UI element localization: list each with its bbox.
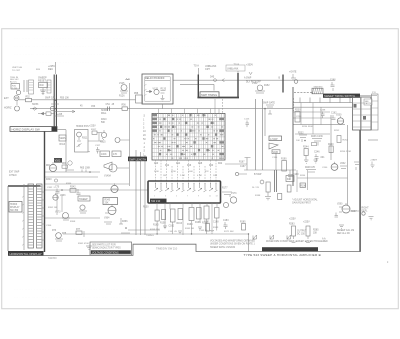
cluster: R240 — [328, 144, 334, 153]
svg-text:R248 47K: R248 47K — [305, 167, 316, 169]
tube: sawtooth CF V186 — [269, 143, 280, 154]
tube V364 — [104, 205, 116, 220]
svg-text:V173: V173 — [55, 212, 61, 214]
svg-text:+350V: +350V — [246, 64, 253, 67]
svg-text:25K: 25K — [105, 203, 110, 205]
svg-text:TIMING: TIMING — [146, 235, 154, 237]
delay line verticals x=255.5,262.5 — [256, 99, 263, 170]
label bar: sweep length (dark strip left of grid bottom) — [128, 157, 147, 162]
svg-text:V186: V186 — [273, 152, 279, 154]
svg-text:HORIZONTAL DISPLAY: HORIZONTAL DISPLAY — [10, 252, 42, 256]
connector J1: ext horiz input — [4, 96, 20, 112]
svg-text:V262: V262 — [340, 163, 346, 165]
capacitor C125 mid — [244, 119, 250, 128]
svg-text:DISPLAY: DISPLAY — [10, 206, 20, 209]
svg-text:C167: C167 — [240, 166, 246, 168]
svg-text:VOLTAGES AND WAVEFORMS OBTAINE: VOLTAGES AND WAVEFORMS OBTAINED — [210, 240, 255, 243]
resistor R56 on bus y=108 — [122, 93, 143, 110]
wire: pot box out — [88, 141, 103, 152]
svg-text:R61: R61 — [46, 165, 51, 167]
svg-text:UNBLANK: UNBLANK — [227, 67, 239, 70]
svg-text:SWEEP TIMING SWITCH: SWEEP TIMING SWITCH — [324, 94, 355, 98]
svg-text:R20: R20 — [209, 165, 214, 167]
wire: left amp y=177 — [45, 176, 98, 178]
svg-text:HORIZ: HORIZ — [4, 107, 12, 110]
svg-text:11: 11 — [209, 196, 211, 198]
svg-text:R236 C236: R236 C236 — [311, 136, 323, 138]
svg-text:V161: V161 — [55, 160, 61, 163]
wire: right section y=112 — [293, 111, 330, 113]
svg-text:* ADJUST HORIZONTAL: * ADJUST HORIZONTAL — [292, 199, 318, 202]
cluster on y=108 wire: attenuator — [32, 104, 39, 110]
svg-text:VERT SIG: VERT SIG — [12, 67, 22, 69]
svg-text:SW 350: SW 350 — [10, 210, 19, 212]
cluster: delay pickoff cathode follower — [119, 78, 130, 97]
svg-text:TIME/DIV SW 210: TIME/DIV SW 210 — [156, 246, 178, 250]
svg-text:DELAY PICKOFF: DELAY PICKOFF — [145, 77, 165, 80]
potentiometer R315 — [100, 130, 107, 144]
wire stubs resistor row to sweep bus — [157, 218, 217, 234]
svg-text:100K: 100K — [188, 171, 193, 173]
svg-text:13: 13 — [216, 196, 218, 198]
label box: delayed sweep — [269, 136, 282, 141]
wire: right section y=124.5 — [293, 124, 345, 126]
cluster: left mid column texts — [101, 110, 108, 124]
tube V152: sweep gating — [252, 83, 270, 93]
left amp: cluster R77 — [76, 229, 84, 237]
wire: left amp y=190 — [45, 189, 148, 191]
wire: stub pickoff box to bus — [162, 104, 164, 109]
svg-text:.... ...... ....... ..... ....: .... ...... ....... ..... ........ .....… — [14, 36, 207, 40]
screen vertical x=284.5 — [282, 75, 284, 93]
resistor R52 on y=100 wire — [26, 97, 32, 102]
left amp: tube V173 cluster — [55, 212, 70, 221]
resistor R194 — [287, 185, 291, 192]
svg-text:R10: R10 — [154, 163, 159, 165]
svg-text:DL 170: DL 170 — [252, 187, 260, 189]
svg-text:AC DC: AC DC — [10, 81, 17, 84]
svg-text:R317: R317 — [91, 129, 97, 131]
svg-text:R352 1M: R352 1M — [48, 207, 57, 209]
svg-text:+225V: +225V — [303, 222, 310, 224]
wire: bus elbow to x=66 down to left amp — [57, 130, 66, 172]
thick section line y=186 left — [8, 185, 41, 187]
svg-text:V364: V364 — [104, 218, 110, 220]
svg-text:A SWP: A SWP — [244, 77, 252, 80]
svg-text:R185: R185 — [240, 222, 246, 224]
resistor R283 vertical column — [289, 219, 307, 243]
svg-text:R150: R150 — [143, 207, 149, 209]
svg-text:R167: R167 — [239, 162, 245, 164]
wire: left amp y=218 — [45, 217, 100, 219]
wire: verticals x=136,140.5,145 grid feed — [136, 150, 145, 235]
coupling dashed line to timing switch — [294, 92, 322, 94]
sawtooth waveform icons — [253, 235, 291, 240]
marks near right border — [354, 162, 359, 170]
wire: vertical stubs x=301,313,321 — [301, 103, 321, 134]
svg-text:R256 2.2M: R256 2.2M — [340, 151, 351, 153]
svg-text:R196: R196 — [300, 185, 306, 187]
svg-text:SWP CAL: SWP CAL — [45, 97, 56, 100]
wire: right section y=134 — [295, 133, 330, 135]
svg-text:R18: R18 — [198, 163, 203, 165]
box: norm/mag switch small — [286, 176, 294, 182]
cluster: left amp input pair — [46, 179, 66, 200]
resistor R190 vertical — [281, 158, 287, 171]
svg-text:TYPE 543 SWEEP & HORIZONTAL A: TYPE 543 SWEEP & HORIZONTAL AMPLIFIER ⊕ — [244, 253, 322, 257]
wire: vertical x=129.5 pickoff to lower stage — [129, 83, 131, 186]
svg-text:R65 100K: R65 100K — [80, 168, 91, 170]
label: ext sweep in — [9, 172, 20, 177]
wire stubs from grid top to bus — [159, 109, 220, 114]
svg-text:C356: C356 — [46, 225, 52, 227]
wire: stubs below timing bar — [300, 98, 350, 103]
U-bracket: sweep timing switch screen outline — [198, 73, 238, 98]
svg-text:5: 5 — [176, 196, 177, 198]
svg-text:R313: R313 — [60, 144, 66, 146]
svg-text:VERN: VERN — [60, 138, 67, 140]
cluster: R342 network — [70, 187, 81, 195]
svg-text:C238: C238 — [320, 110, 326, 112]
svg-text:15K: 15K — [313, 233, 318, 235]
svg-text:TO A: TO A — [194, 65, 200, 68]
svg-text:2.2M: 2.2M — [180, 175, 185, 177]
svg-text:R177: R177 — [222, 188, 228, 190]
wire: y=230 stub — [121, 230, 160, 233]
label bar: horizontal display switch SW350 (bottom left) — [8, 251, 44, 256]
svg-text:..... ....... ...... .... ....: ..... ....... ...... .... ........ .....… — [14, 52, 210, 56]
svg-text:C317: C317 — [95, 145, 101, 147]
svg-text:R181: R181 — [204, 222, 210, 224]
capacitor C238 — [320, 110, 326, 119]
label box: unblanking — [226, 65, 245, 71]
svg-text:OUTPUT: OUTPUT — [297, 231, 307, 233]
diamond junction on y=80 wire — [210, 77, 217, 82]
resistor R317 — [91, 129, 102, 154]
arrow marks on wire y=80 — [222, 72, 252, 82]
svg-text:PARTS: PARTS — [365, 102, 372, 105]
svg-text:SWP TIMING: SWP TIMING — [201, 93, 217, 97]
wire: long horizontal bus y=108.5 — [30, 108, 293, 110]
svg-text:C53: C53 — [91, 106, 96, 108]
left amp: sweep label box and tube — [78, 196, 90, 213]
svg-text:220K: 220K — [154, 171, 159, 173]
svg-text:+GATE: +GATE — [370, 159, 378, 162]
svg-text:R264: R264 — [300, 175, 306, 177]
svg-text:R22: R22 — [218, 163, 223, 165]
label bar: time/cm switch (dark) — [323, 94, 360, 98]
tube V250 with envelope — [336, 114, 344, 124]
svg-text:2.2M: 2.2M — [12, 88, 17, 90]
wire: left amp y=172 — [45, 171, 100, 173]
left amp: cluster V193 — [52, 230, 67, 241]
resistor R165 (below wafer) — [195, 208, 201, 225]
svg-text:SWEEP RATE 1 MS/CM: SWEEP RATE 1 MS/CM — [210, 246, 235, 249]
svg-text:R190: R190 — [281, 158, 287, 160]
vertical box component x=295 y=111 — [295, 109, 301, 122]
svg-text:SW350: SW350 — [48, 256, 57, 260]
svg-text:R297: R297 — [351, 211, 357, 213]
ground: left amp bottom — [86, 246, 92, 250]
cluster: right-mid extra 2 — [314, 152, 325, 162]
svg-text:R232: R232 — [298, 133, 304, 135]
cluster: inside delay pickoff box — [146, 88, 167, 101]
box U1: delay pickoff sub-circuit with title strip — [142, 74, 173, 104]
svg-text:R160: R160 — [153, 225, 159, 227]
svg-text:R14: R14 — [176, 163, 181, 165]
svg-text:V290: V290 — [337, 204, 343, 206]
wire stubs above bracket — [198, 67, 238, 75]
left amp: verticals to lower stage — [57, 195, 62, 215]
box: R58 on mag line — [46, 112, 51, 115]
wire: y=113.5 mag register line — [38, 112, 54, 115]
wire: bar to right edge y=95.5 — [360, 95, 377, 97]
svg-text:HORIZ DISPLAY SW: HORIZ DISPLAY SW — [12, 128, 40, 132]
svg-text:SW53: SW53 — [32, 104, 39, 106]
tube V250B lower — [331, 162, 347, 171]
svg-text:R50 10K: R50 10K — [60, 98, 69, 100]
svg-text:C70: C70 — [55, 187, 60, 189]
table row labels left — [143, 115, 146, 161]
mechanical coupling box — [312, 88, 323, 94]
switch logic table (timing chart grid) — [152, 114, 225, 161]
wire: y=116 stub — [54, 115, 64, 117]
svg-text:9: 9 — [198, 196, 199, 198]
svg-text:R77: R77 — [76, 229, 81, 231]
resistor R166 — [202, 206, 209, 225]
svg-text:...... ..... ........ ..... ..: ...... ..... ........ ..... ...... .....… — [14, 287, 210, 291]
resistor R158 (below wafer) — [160, 210, 166, 225]
wire: horizontal y=84 — [180, 84, 214, 90]
svg-text:CRT: CRT — [205, 68, 210, 71]
svg-text:R56: R56 — [122, 105, 127, 107]
svg-text:R126: R126 — [119, 96, 125, 98]
svg-text:R345: R345 — [105, 200, 111, 202]
resistor R198 small — [278, 194, 282, 200]
svg-text:R315: R315 — [100, 142, 106, 144]
wire: column x=215 to bar — [214, 99, 216, 114]
svg-text:SWP LENGTH: SWP LENGTH — [129, 157, 146, 161]
svg-text:R336: R336 — [66, 183, 72, 185]
svg-text:47K: 47K — [113, 153, 118, 156]
narrow box right edge — [372, 94, 379, 130]
svg-text:R165: R165 — [195, 222, 201, 224]
svg-text:NORM: NORM — [101, 110, 108, 112]
label box: horizontal display — [9, 202, 22, 213]
svg-text:DC 150: DC 150 — [297, 234, 306, 236]
resistor R254 — [337, 136, 349, 143]
svg-text:MAG: MAG — [101, 112, 106, 115]
cluster: top right corner texts — [370, 92, 378, 168]
svg-text:ATTEN: ATTEN — [9, 174, 17, 177]
svg-text:+225V: +225V — [289, 219, 296, 221]
svg-text:C168: C168 — [213, 221, 219, 223]
wire stubs below wafer box — [157, 203, 217, 235]
svg-text:C165 10: C165 10 — [199, 230, 208, 232]
svg-text:3: 3 — [165, 196, 166, 198]
svg-text:V173: V173 — [231, 193, 237, 195]
svg-text:R366: R366 — [122, 221, 128, 223]
svg-text:R234 330K: R234 330K — [302, 126, 313, 128]
wire: sweep output long run y=234 — [63, 234, 249, 252]
extra labels: resistor row — [146, 227, 234, 237]
ground symbols below resistor row — [163, 226, 214, 234]
svg-text:C246: C246 — [314, 152, 320, 154]
cluster: row y=220 #3 — [240, 222, 246, 231]
left amp: cluster R63/C63 — [62, 161, 74, 170]
label boxes: 100K / 47K — [100, 151, 121, 157]
capacitor C54 on bus y=108 — [106, 104, 115, 111]
svg-text:R40: R40 — [40, 85, 45, 87]
svg-text:REF ALL DC: REF ALL DC — [337, 232, 350, 235]
thick feed vertical x=293 — [292, 87, 294, 186]
svg-text:R285: R285 — [313, 230, 319, 232]
extra labels: right amp section — [296, 116, 351, 177]
svg-text:R12: R12 — [165, 165, 170, 167]
cluster: marks below V364 — [104, 218, 128, 229]
svg-text:C160: C160 — [330, 80, 336, 82]
svg-text:TO CRT: TO CRT — [12, 70, 21, 72]
svg-text:R310: R310 — [101, 119, 107, 121]
svg-text:R135: R135 — [161, 88, 167, 90]
svg-text:C125: C125 — [244, 119, 250, 121]
wire stubs: strips to section line — [42, 192, 45, 240]
svg-text:VOLTAGE CONDITIONS: VOLTAGE CONDITIONS — [92, 251, 119, 254]
svg-text:+GATE: +GATE — [289, 71, 297, 74]
svg-text:50K: 50K — [101, 122, 106, 124]
svg-text:HORIZ: HORIZ — [10, 204, 18, 206]
wire: right section y=102.5 — [293, 102, 352, 104]
svg-text:C332 .1: C332 .1 — [47, 187, 55, 189]
svg-text:GAIN R196 FIRST: GAIN R196 FIRST — [292, 202, 312, 205]
svg-text:R73: R73 — [52, 230, 57, 232]
junction dots on sweep bus — [156, 233, 249, 234]
dash coupling vertical x=293.5 — [293, 98, 295, 111]
svg-text:C162: C162 — [169, 225, 175, 227]
svg-text:C161 .05: C161 .05 — [168, 231, 178, 233]
cluster: sweep reset stage — [38, 77, 51, 96]
tube V140A sweep gen — [104, 162, 129, 178]
svg-text:A A: A A — [322, 238, 326, 241]
resistor R168 — [213, 208, 219, 224]
cluster: sweep gate components on bus — [263, 102, 275, 114]
svg-text:R63: R63 — [62, 163, 67, 165]
schematic bottom border staircase — [44, 130, 361, 255]
svg-text:R283: R283 — [289, 224, 295, 226]
svg-text:R152: R152 — [264, 85, 270, 87]
output tube V290 — [335, 203, 361, 228]
resistor R210 vertical with ground — [265, 182, 271, 200]
junction at bus crossing — [50, 99, 59, 110]
svg-text:R52: R52 — [26, 97, 31, 99]
cluster: row y=220 #1 — [204, 222, 210, 232]
resistor R163 (below wafer) — [177, 209, 183, 225]
svg-text:R16: R16 — [187, 165, 192, 167]
cluster: +GATE source top right — [289, 71, 298, 84]
wire: right section y=178 — [298, 177, 348, 179]
cluster: right-mid extra 1 — [303, 147, 309, 164]
svg-text:R169: R169 — [213, 227, 219, 229]
note box: important note bottom left — [90, 242, 132, 255]
extra labels: top left — [12, 67, 41, 72]
left amp: cluster V183 — [55, 187, 63, 195]
wire: y=164 from grid to B sweep — [225, 158, 247, 171]
cluster: right amp input pair — [298, 133, 307, 142]
pot terminal circle on x=129.5 line — [115, 138, 130, 143]
svg-text:R58: R58 — [134, 93, 139, 95]
svg-text:HORIZ POS: HORIZ POS — [76, 126, 89, 128]
svg-text:R163: R163 — [177, 223, 183, 225]
neon bulb B192 — [260, 180, 264, 184]
cluster: timing capacitor bank top right — [330, 80, 336, 92]
notes text block 1 — [210, 240, 255, 249]
svg-text:V140A: V140A — [104, 175, 111, 178]
resistor R160 (below wafer) — [153, 210, 159, 227]
svg-text:1M: 1M — [163, 175, 166, 177]
svg-text:7: 7 — [187, 196, 188, 198]
svg-text:R340: R340 — [46, 179, 52, 181]
label box: sweep timing switch — [200, 92, 219, 97]
svg-text:SWP GATE: SWP GATE — [263, 102, 275, 105]
svg-text:R240: R240 — [328, 144, 334, 146]
ground: mid right — [314, 160, 319, 163]
wire: vertical x=307.5 — [307, 170, 309, 190]
svg-text:UNDER CONDITIONS GIVEN ON PLAT: UNDER CONDITIONS GIVEN ON PLATE 1 — [210, 243, 255, 246]
left amp: tube V161 cluster — [46, 158, 62, 172]
wire: horizontal y=80 delay pickoff output — [173, 79, 335, 81]
connector: horiz sig out (outside border) — [362, 208, 374, 220]
cluster: right amp R236 network — [311, 136, 323, 146]
svg-text:...... .... ..... ....... ....: ...... .... ..... ....... ..... ...... .… — [14, 44, 210, 48]
svg-text:C230: C230 — [296, 116, 302, 118]
svg-text:EXT: EXT — [4, 97, 9, 100]
section border left vertical x=8 — [7, 186, 9, 251]
cluster: tube in timing cap section — [331, 113, 340, 122]
notes text block 2 — [266, 240, 328, 243]
wire: right section y=118 — [293, 117, 331, 119]
svg-text:RIGHT: RIGHT — [362, 208, 370, 210]
label box: R345 — [103, 198, 118, 205]
wire: mid vertical x=276 and y=170 run — [244, 153, 296, 170]
note text right bottom — [337, 229, 354, 235]
dashed switch columns grid to wafer — [156, 160, 217, 184]
neon bulb B167 — [235, 172, 238, 175]
svg-text:EXT SWP: EXT SWP — [9, 172, 20, 174]
svg-text:R342: R342 — [70, 187, 76, 189]
svg-text:R171 56K: R171 56K — [224, 231, 234, 233]
cluster: trigger input circuit top-left — [10, 77, 34, 95]
svg-text:DEC: DEC — [48, 68, 53, 71]
svg-text:A SWP: A SWP — [270, 138, 278, 141]
svg-text:100K: 100K — [101, 153, 107, 156]
svg-text:+225: +225 — [57, 114, 63, 116]
note: aligns horizontal text — [292, 199, 318, 205]
svg-text:R358: R358 — [70, 221, 76, 223]
resistor R285 vertical column — [303, 222, 319, 243]
wire: vertical x=347.5 to output stage — [347, 125, 349, 205]
wire: thin vertical above chassis bus — [55, 62, 57, 74]
cluster: C190 network — [288, 170, 299, 192]
switch wafer box SW210 — [148, 181, 221, 203]
svg-text:R311: R311 — [82, 138, 88, 140]
extra labels: mid bottom — [252, 157, 278, 197]
wire: y=174 stub — [239, 173, 247, 175]
label box: vernier — [59, 135, 66, 146]
svg-text:R75: R75 — [62, 233, 67, 235]
svg-text:C186: C186 — [272, 157, 278, 159]
svg-text:R230: R230 — [295, 109, 301, 111]
wire: y=140 right edge stub — [368, 139, 378, 141]
